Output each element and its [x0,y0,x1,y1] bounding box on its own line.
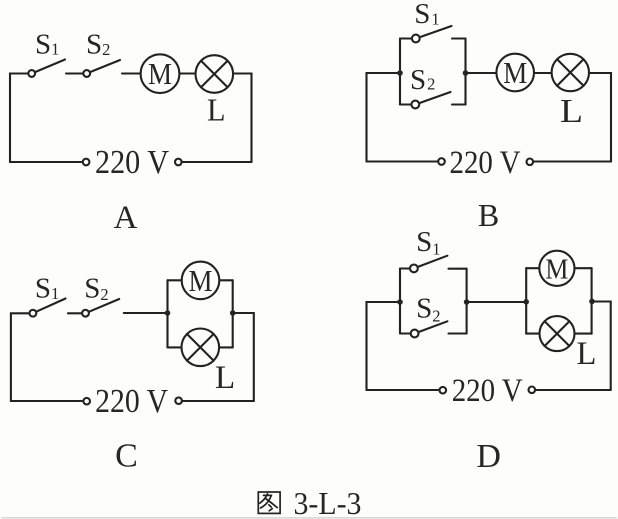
switch S2 (circuit D) [411,321,448,337]
switch S1 (circuit C) [30,299,66,317]
wire: B switch block right bar [464,39,466,105]
power source terminal left (circuit A) [83,159,90,166]
motor M (circuit C) [182,262,220,300]
svg-text:M: M [503,55,527,90]
junction: D switch block left node [397,299,403,305]
svg-text:C: C [115,438,138,475]
junction: B left node [397,70,403,76]
wire: A from S2 to motor [122,72,140,74]
power source terminal left (circuit B) [438,158,445,165]
power source terminal right (circuit A) [175,159,182,166]
wire: A right side (lamp to bottom-right corner) [234,74,252,163]
wire: D switch block left bar [399,269,401,334]
lamp L (circuit C) [182,329,220,367]
lamp L (circuit A) [196,55,234,93]
wire: C bottom left segment [11,400,82,402]
wire: D lamp block right bar [591,268,593,334]
wire: D right side down [592,302,611,391]
junction: C right node [230,310,236,316]
wire: A bottom right segment [183,161,252,163]
junction: B right node [463,70,469,76]
wire: C left side [11,313,29,401]
wire: A bottom left segment [10,161,82,163]
wire: C parallel block right bar [232,280,234,347]
scan artifact line at bottom edge [2,517,616,519]
wire: D left lead into switch block and left side down [367,302,401,390]
switch S1 (circuit D) [410,256,447,273]
lamp L (circuit D) [540,316,575,351]
switch S1 (circuit A) [28,60,65,77]
wire: B switch block left bar [399,39,401,105]
power source terminal left (circuit C) [83,398,90,405]
svg-text:D: D [476,438,501,475]
wire: D lamp branch right stub [575,333,591,335]
wire: C parallel block left bar [166,280,168,347]
junction: D lamp block left node [523,299,529,305]
junction: C left node [165,310,171,316]
caption character 图 (drawn) [258,492,280,513]
junction: D lamp block right node [589,299,595,305]
wire: D lamp block left bar [525,268,527,333]
wire: D motor branch right stub [575,267,591,269]
wire: C top branch right stub [220,279,233,281]
wire: D lamp branch left stub [526,333,539,335]
wire: A between motor and lamp [180,72,195,74]
wire: B between motor and lamp [535,72,551,74]
wire: C bottom branch right stub [220,346,233,348]
power source terminal right (circuit D) [529,387,536,394]
power source terminal right (circuit B) [527,159,534,166]
wire: C top branch left stub [168,279,182,281]
svg-text:220 V: 220 V [452,373,523,409]
wire: B top right stub from S1 to right bar [452,37,466,39]
svg-text:M: M [148,56,172,91]
svg-text:L: L [560,93,583,130]
svg-text:M: M [545,253,568,285]
wire: D bottom right stub from S2 to right bar [449,332,467,334]
wire: C between S1 and S2 [68,312,81,314]
switch S2 (circuit A) [83,60,120,77]
svg-text:220 V: 220 V [450,145,521,181]
wire: B from switch block to motor [466,72,496,74]
wire: D between switch block and lamp block [467,301,527,303]
wire: D bottom stub to S2 [400,332,410,334]
motor M (circuit A) [141,54,180,93]
motor M (circuit B) [496,54,534,92]
svg-text:L: L [207,92,226,128]
svg-text:3-L-3: 3-L-3 [294,486,362,519]
lamp L (circuit B) [552,54,589,91]
wire: D bottom left segment [367,389,439,391]
svg-text:L: L [577,336,597,372]
wire: B bottom stub to S2 [400,103,411,105]
wire: C right side [233,313,254,401]
svg-text:220 V: 220 V [95,144,169,181]
wire: C bottom right segment [183,400,254,402]
wire: A left side (top-left corner down to bottom-left corner) [10,74,27,163]
wire: D motor branch left stub [526,267,538,269]
svg-text:A: A [114,200,138,236]
svg-text:220 V: 220 V [95,383,168,420]
svg-text:B: B [478,197,499,233]
wire: B bottom right stub from S2 to right bar [452,103,466,105]
wire: C bottom branch left stub [168,346,182,348]
svg-text:M: M [189,263,213,298]
wire: C from S2 to parallel block left node [124,312,168,314]
motor M (circuit D) [539,251,574,286]
wire: D top stub to S1 [400,267,409,269]
switch S2 (circuit C) [82,299,119,317]
power source terminal left (circuit D) [440,387,447,394]
switch S1 (circuit B) [412,26,452,42]
wire: B bottom left segment [367,160,438,162]
wire: B top stub to S1 [400,37,411,39]
wire: B bottom right segment [534,160,611,162]
power source terminal right (circuit C) [175,397,182,404]
switch S2 (circuit B) [411,92,450,108]
wire: B right side (lamp to bottom-right corner) [590,73,611,162]
wire: D top right stub from S1 to right bar [449,268,467,270]
wire: D switch block right bar [466,269,468,334]
wire: A between S1 and S2 [66,72,82,74]
junction: D switch block right node [464,299,470,305]
wire: D bottom right segment [536,389,610,391]
wire: B left lead into switch block and left side down [367,73,401,162]
svg-text:L: L [215,360,235,396]
